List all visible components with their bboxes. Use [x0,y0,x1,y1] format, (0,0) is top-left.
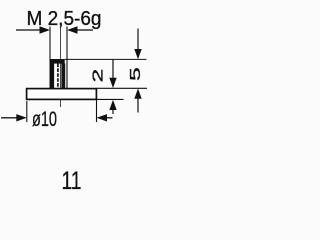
label 5 [127,67,144,81]
svg-text:2: 2 [89,69,106,83]
label diameter 10 [32,108,57,131]
disc bottom extension line [97,98,124,100]
dimension 2 upper arrow [109,59,116,88]
disc top extension line [97,87,148,89]
diameter extension line disc left [26,101,28,122]
svg-text:5: 5 [127,67,144,81]
dimension line M2,5 right arrow [67,26,93,33]
disc [27,89,97,100]
extension line stud right [66,27,68,89]
svg-text:ø10: ø10 [32,108,57,131]
extension line stud left [49,27,51,61]
dimension 2 lower arrow [109,100,116,114]
dimension 5 upper arrow [134,29,141,60]
dimension 5 lower arrow [134,89,141,113]
diameter dimension line left arrow [1,114,27,121]
centerline [60,24,62,107]
diameter dimension line right arrow [97,114,113,121]
stud top extension line [65,58,147,60]
svg-text:11: 11 [62,167,82,195]
label 2 [89,69,106,83]
stud thread body [50,59,66,89]
part number 11 [62,167,82,195]
thread label M2,5-6g [27,8,102,30]
diameter extension line disc right [96,100,98,122]
dimension line M2,5 left arrow [16,26,50,33]
svg-text:M 2,5-6g: M 2,5-6g [27,8,102,30]
